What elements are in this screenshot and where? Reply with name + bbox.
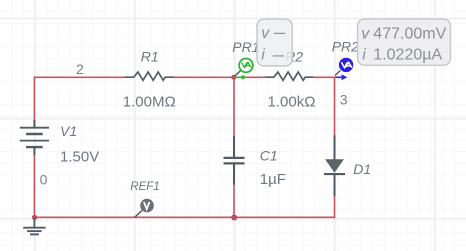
resistor R2	[265, 72, 314, 80]
svg-text:1.50V: 1.50V	[60, 148, 99, 165]
capacitor C1	[224, 136, 245, 185]
wire R1 to node junction	[174, 76, 234, 78]
svg-text:R1: R1	[141, 48, 159, 64]
svg-text:PR1: PR1	[232, 39, 259, 55]
resistor R1	[125, 72, 174, 80]
probe PR2 body	[339, 58, 353, 72]
svg-text:V1: V1	[60, 123, 77, 139]
wire top-right corner down to D1	[334, 76, 336, 135]
wire junction to R2	[234, 76, 265, 78]
wire C1 bottom to bottom rail	[233, 185, 235, 219]
junction bottom-left at ground	[32, 215, 37, 220]
wire battery to bottom-left junction	[33, 155, 35, 218]
probe PR1 body	[239, 59, 253, 73]
ground	[23, 218, 45, 234]
wire node junction down to C1	[233, 77, 235, 136]
svg-text:0: 0	[40, 172, 48, 188]
svg-text:1µF: 1µF	[260, 171, 286, 188]
svg-text:3: 3	[340, 92, 348, 108]
svg-text:2: 2	[76, 61, 84, 77]
svg-text:477.00mV: 477.00mV	[373, 25, 446, 42]
PR2 readout box	[358, 19, 451, 65]
svg-text:i: i	[362, 47, 366, 64]
junction at C1 bottom	[231, 215, 237, 221]
probe PR2 arrow	[335, 74, 347, 80]
probe PR1 stem	[235, 70, 241, 76]
svg-text:1.0220µA: 1.0220µA	[373, 47, 442, 64]
diode D1	[324, 135, 345, 196]
svg-text:REF1: REF1	[130, 181, 159, 193]
svg-text:1.00MΩ: 1.00MΩ	[123, 93, 176, 110]
wire bottom rail	[34, 216, 334, 218]
svg-text:PR2: PR2	[332, 38, 359, 54]
probe REF1 stem	[135, 210, 142, 217]
probe PR2 stem	[335, 71, 340, 76]
probe REF1 body	[140, 199, 154, 213]
probe PR1 arrow	[235, 75, 247, 80]
battery V1	[20, 120, 49, 156]
svg-text:D1: D1	[353, 161, 371, 177]
wire left vertical top to battery	[33, 76, 35, 120]
wire net 2 top-left horizontal	[34, 76, 124, 78]
svg-text:v: v	[361, 25, 370, 42]
wire R2 to top-right corner	[314, 76, 335, 78]
wire D1 bottom down to bottom rail	[334, 196, 336, 218]
PR1 readout box	[257, 19, 292, 66]
junction node 2 at C1 top	[231, 75, 236, 80]
svg-text:1.00kΩ: 1.00kΩ	[268, 93, 316, 110]
svg-text:v: v	[261, 25, 270, 42]
svg-text:C1: C1	[260, 148, 278, 164]
svg-text:i: i	[261, 47, 265, 64]
